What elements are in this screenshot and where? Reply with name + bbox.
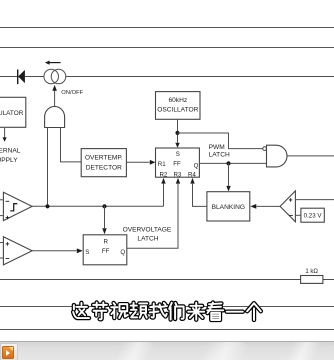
current direction arrow <box>45 61 61 65</box>
comparator U4 <box>0 237 32 265</box>
svg-text:S: S <box>176 151 180 158</box>
wire comparator to blanking <box>250 204 280 209</box>
subtitle char 视 <box>111 303 128 318</box>
wire gate input right to overtemp detector <box>61 128 82 162</box>
subtitle char 节 <box>93 303 107 320</box>
figure top border line <box>0 27 334 29</box>
label OVERVOLTAGE LATCH <box>123 227 172 243</box>
reference 0.23 V box <box>301 208 324 222</box>
subtitle char 们 <box>169 303 183 320</box>
wire comparator2 to S <box>32 248 83 253</box>
enable AND gate (output up) <box>45 106 65 127</box>
subtitle char 个 <box>247 303 261 320</box>
svg-text:ON/OFF: ON/OFF <box>61 90 83 96</box>
svg-text:LATCH: LATCH <box>137 236 158 243</box>
svg-text:PWM: PWM <box>209 144 225 151</box>
subtitle characters <box>73 303 261 320</box>
blanking box <box>207 192 250 221</box>
svg-text:DETECTOR: DETECTOR <box>86 164 122 171</box>
svg-text:OVERTEMP.: OVERTEMP. <box>85 155 123 162</box>
subtitle char 频 <box>131 303 148 318</box>
resistor R5 1 kOhm <box>301 269 323 283</box>
svg-text:60kHz: 60kHz <box>168 97 187 104</box>
wire down to blanking <box>226 163 230 191</box>
wire sync to AND gate inverted input <box>178 133 263 149</box>
current source (ON/OFF switched) <box>44 69 66 84</box>
PWM latch flip-flop box <box>156 148 200 178</box>
svg-text:R4: R4 <box>188 171 196 178</box>
wire gate input left down to comparator node <box>47 128 49 207</box>
figure bottom border line <box>0 329 334 331</box>
comparator U5 (current limit) <box>280 191 334 222</box>
svg-text:REGULATOR: REGULATOR <box>0 110 24 117</box>
ON/OFF control arrow <box>52 85 57 107</box>
svg-text:OSCILLATOR: OSCILLATOR <box>157 107 198 114</box>
svg-text:SUPPLY: SUPPLY <box>0 157 18 164</box>
subtitle char 这 <box>73 303 89 318</box>
svg-text:OVERVOLTAGE: OVERVOLTAGE <box>123 227 172 234</box>
drain bus top line <box>0 47 334 49</box>
svg-text:Q: Q <box>194 163 199 170</box>
svg-text:0.23 V: 0.23 V <box>304 213 323 220</box>
wire OV latch Q to R3 <box>127 178 180 248</box>
wire drain row <box>0 76 334 78</box>
subtitle char 来 <box>188 303 204 320</box>
output AND gate U2 <box>263 145 287 167</box>
wire overtemp to R1 <box>126 160 155 165</box>
svg-text:R1: R1 <box>158 161 166 168</box>
svg-text:FF: FF <box>102 248 110 255</box>
subtitle char 我 <box>150 303 167 318</box>
svg-text:FF: FF <box>173 160 181 167</box>
play button <box>0 343 18 360</box>
junction dot osc <box>175 131 179 135</box>
comparator U3 (schmitt) <box>0 192 32 220</box>
junction dot Q line <box>226 161 230 165</box>
wire gate output to edge <box>287 155 334 157</box>
svg-text:INTERNAL: INTERNAL <box>0 148 21 155</box>
svg-text:R3: R3 <box>173 171 181 178</box>
arrow below regulator <box>3 128 7 142</box>
source bus line <box>0 306 334 308</box>
wire comparator output to R2 <box>161 178 165 206</box>
subtitle char 一 <box>227 310 243 314</box>
diode D1 <box>18 70 25 85</box>
oscillator box <box>156 92 201 120</box>
wire comparator1 output <box>32 205 163 207</box>
svg-text:Q: Q <box>120 249 125 256</box>
wire down to OV latch R <box>102 206 106 234</box>
wire oscillator down to S input <box>175 119 179 147</box>
svg-text:1 kΩ: 1 kΩ <box>305 269 318 275</box>
overvoltage latch box <box>83 235 127 265</box>
junction dot A <box>45 204 49 208</box>
label INTERNAL SUPPLY (clipped) <box>0 148 21 164</box>
junction dot B <box>102 204 106 208</box>
player toolbar <box>0 341 334 360</box>
overtemp detector box <box>81 149 126 177</box>
svg-text:LATCH: LATCH <box>209 152 230 159</box>
svg-text:S: S <box>85 249 89 256</box>
regulator box (clipped at left) <box>0 97 26 127</box>
svg-text:R2: R2 <box>159 171 167 178</box>
label PWM LATCH <box>209 144 230 159</box>
wire Q output to AND gate <box>199 162 266 164</box>
svg-text:BLANKING: BLANKING <box>212 204 245 211</box>
wire blanking to R4 <box>190 178 207 207</box>
wire sense line with resistor <box>0 279 334 281</box>
svg-text:R: R <box>103 238 108 245</box>
subtitle char 看 <box>207 303 223 320</box>
